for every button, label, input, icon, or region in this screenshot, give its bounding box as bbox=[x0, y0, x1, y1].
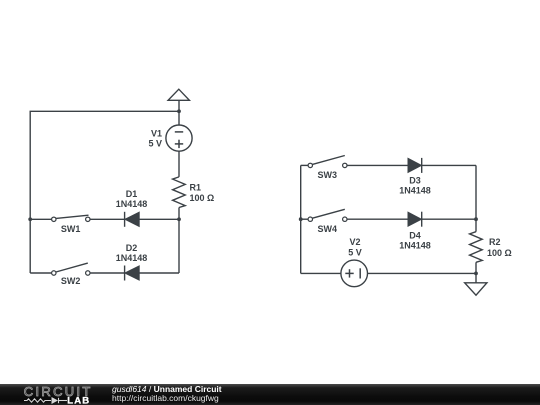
svg-text:SW2: SW2 bbox=[61, 276, 81, 286]
svg-text:R2: R2 bbox=[489, 237, 501, 247]
svg-text:5 V: 5 V bbox=[348, 247, 362, 257]
svg-text:1N4148: 1N4148 bbox=[116, 199, 148, 209]
svg-text:V2: V2 bbox=[349, 237, 360, 247]
svg-text:SW1: SW1 bbox=[61, 224, 81, 234]
svg-text:100 Ω: 100 Ω bbox=[190, 193, 215, 203]
svg-text:1N4148: 1N4148 bbox=[399, 185, 431, 195]
svg-text:100 Ω: 100 Ω bbox=[487, 248, 512, 258]
svg-text:D4: D4 bbox=[409, 230, 421, 240]
svg-text:5 V: 5 V bbox=[148, 138, 162, 148]
svg-text:SW3: SW3 bbox=[318, 170, 338, 180]
svg-text:D3: D3 bbox=[409, 175, 421, 185]
svg-text:D2: D2 bbox=[126, 243, 138, 253]
svg-text:D1: D1 bbox=[126, 189, 138, 199]
svg-text:1N4148: 1N4148 bbox=[399, 240, 431, 250]
svg-text:SW4: SW4 bbox=[318, 224, 338, 234]
svg-text:V1: V1 bbox=[151, 129, 162, 139]
svg-text:R1: R1 bbox=[190, 182, 202, 192]
svg-text:LAB: LAB bbox=[67, 395, 90, 405]
svg-text:1N4148: 1N4148 bbox=[116, 253, 148, 263]
